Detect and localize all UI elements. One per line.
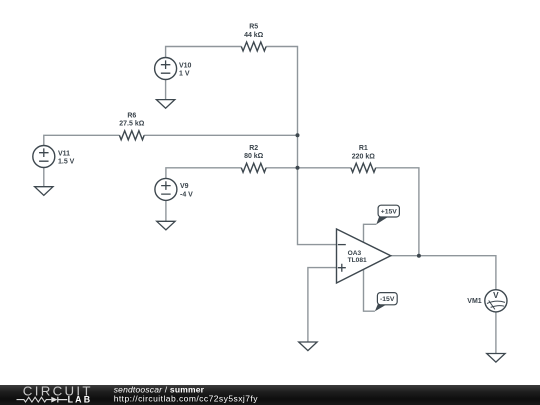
svg-text:1.5 V: 1.5 V bbox=[58, 158, 75, 165]
resistor R6 bbox=[119, 131, 144, 140]
wire op-amp V+ pin to +15V flag bbox=[364, 224, 377, 242]
wire node B to R1 bbox=[298, 167, 351, 169]
wire R5 to node A bbox=[266, 47, 297, 136]
node C output junction dot bbox=[417, 254, 421, 258]
wire V11 to R6 bbox=[44, 135, 120, 145]
svg-text:V10: V10 bbox=[179, 62, 192, 69]
svg-text:R5: R5 bbox=[249, 24, 258, 31]
svg-text:27.5 kΩ: 27.5 kΩ bbox=[119, 121, 144, 128]
voltage source V11 bbox=[33, 146, 55, 168]
net flag -15V bbox=[375, 293, 397, 312]
voltage source V9 bbox=[155, 178, 177, 200]
net flag +15V bbox=[376, 205, 399, 224]
svg-text:R1: R1 bbox=[359, 145, 368, 152]
ground below V9 bbox=[157, 221, 175, 230]
node A junction dot bbox=[296, 133, 300, 137]
ground below V10 bbox=[156, 100, 174, 109]
voltmeter VM1 bbox=[485, 290, 507, 312]
svg-text:V11: V11 bbox=[58, 150, 70, 157]
op-amp non-inverting input plus glyph bbox=[338, 264, 346, 272]
resistor R1 bbox=[351, 163, 376, 172]
svg-text:R2: R2 bbox=[249, 145, 258, 152]
wire V10 to ground bbox=[165, 80, 167, 100]
voltage source V10 bbox=[155, 58, 177, 80]
footer bar bbox=[0, 385, 540, 405]
wire node A to node B bbox=[297, 135, 299, 168]
wire V9 to R2 bbox=[166, 168, 241, 179]
wire node B to op-amp inverting input bbox=[298, 168, 337, 245]
wire op-amp output to VM1 bbox=[391, 256, 496, 290]
op-amp OA3 triangle bbox=[337, 229, 391, 283]
resistor R5 bbox=[241, 42, 266, 51]
svg-text:+15V: +15V bbox=[381, 209, 398, 216]
wire R2 to node B bbox=[266, 167, 297, 169]
svg-text:OA3: OA3 bbox=[348, 250, 362, 257]
svg-text:V9: V9 bbox=[180, 183, 189, 190]
svg-text:V: V bbox=[493, 291, 499, 300]
node B junction dot bbox=[296, 166, 300, 170]
svg-text:1 V: 1 V bbox=[179, 70, 190, 77]
wire VM1 to ground bbox=[495, 312, 497, 354]
svg-text:44 kΩ: 44 kΩ bbox=[244, 32, 264, 39]
CircuitLab logo resistor squiggle bbox=[17, 397, 52, 402]
svg-text:R6: R6 bbox=[127, 113, 136, 120]
svg-text:-4 V: -4 V bbox=[180, 191, 193, 198]
wire V11 to ground bbox=[43, 168, 45, 187]
svg-text:http://circuitlab.com/cc72sy5s: http://circuitlab.com/cc72sy5sxj7fy bbox=[114, 394, 259, 404]
ground below VM1 bbox=[487, 354, 505, 363]
wire V9 to ground bbox=[165, 200, 167, 221]
wire V10 to R5 bbox=[166, 47, 242, 58]
wire R1 to node C bbox=[376, 168, 419, 256]
wire op-amp non-inverting input to ground bbox=[308, 268, 337, 342]
svg-text:80 kΩ: 80 kΩ bbox=[244, 153, 264, 160]
wire R6 to node A bbox=[144, 134, 297, 136]
svg-text:VM1: VM1 bbox=[467, 298, 482, 305]
svg-text:LAB: LAB bbox=[68, 395, 93, 405]
ground below op-amp non-inverting input bbox=[299, 342, 317, 351]
svg-text:-15V: -15V bbox=[380, 296, 395, 303]
ground below V11 bbox=[35, 187, 53, 196]
CircuitLab logo diode bbox=[51, 397, 67, 403]
svg-text:TL081: TL081 bbox=[348, 257, 367, 264]
resistor R2 bbox=[241, 163, 266, 172]
svg-text:220 kΩ: 220 kΩ bbox=[352, 153, 376, 160]
op-amp inverting input minus glyph bbox=[338, 244, 346, 246]
wire op-amp V- pin to -15V flag bbox=[364, 269, 375, 311]
